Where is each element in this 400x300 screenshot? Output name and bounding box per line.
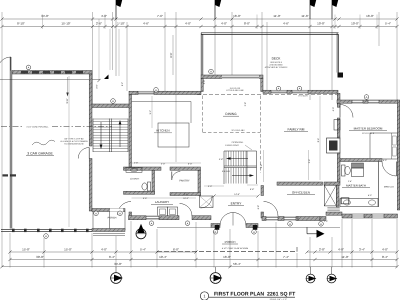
markers entry bbox=[213, 230, 218, 235]
black section arrow near garage NE bbox=[104, 75, 109, 80]
svg-text:8'-6": 8'-6" bbox=[317, 138, 320, 143]
svg-text:16'-8": 16'-8" bbox=[233, 14, 241, 18]
svg-text:11'-0": 11'-0" bbox=[341, 255, 348, 259]
master suite divider wall bbox=[340, 159, 382, 162]
deck west dim bbox=[172, 35, 174, 75]
office front wall bbox=[262, 217, 298, 221]
xbox top wall bbox=[324, 182, 340, 185]
svg-text:9'-6": 9'-6" bbox=[66, 98, 69, 103]
svg-text:3'-6": 3'-6" bbox=[96, 84, 99, 89]
entry dim bbox=[214, 195, 258, 197]
svg-text:CASED OPN'G: CASED OPN'G bbox=[225, 144, 239, 147]
front wall master section bbox=[326, 212, 342, 215]
master bedroom north wall bbox=[337, 100, 398, 103]
family east wall upper bbox=[337, 93, 340, 104]
kitchen north wall bbox=[129, 91, 201, 94]
extension lines from top dims bbox=[1, 12, 3, 267]
markers laundry front bbox=[149, 221, 154, 226]
svg-text:3'-0": 3'-0" bbox=[203, 80, 206, 85]
cabinet right of xbox bbox=[341, 198, 349, 204]
deck door arc into master bbox=[340, 105, 353, 118]
entry front wall right bbox=[246, 224, 258, 228]
svg-text:10'-0": 10'-0" bbox=[351, 22, 359, 26]
west wall vent marks bbox=[3, 174, 9, 176]
svg-text:DECK: DECK bbox=[272, 57, 282, 61]
garage NW service door arc bbox=[0, 57, 11, 71]
svg-text:TO GARAGE/HOUSE: TO GARAGE/HOUSE bbox=[64, 143, 84, 146]
svg-text:8'-0": 8'-0" bbox=[244, 22, 250, 26]
closet door arc bbox=[201, 197, 213, 209]
svg-text:5'-4": 5'-4" bbox=[140, 247, 146, 251]
porch steps arrow bbox=[306, 227, 308, 234]
entry front wall left bbox=[211, 224, 220, 228]
svg-text:PORCH: PORCH bbox=[108, 216, 117, 219]
dining bay north wall bbox=[201, 75, 263, 79]
xbox with X bbox=[324, 185, 336, 206]
svg-text:4'-8": 4'-8" bbox=[219, 158, 224, 161]
side porch south edge bbox=[92, 229, 125, 232]
flag marker 1 bbox=[115, 0, 117, 19]
svg-text:1/2 BATH: 1/2 BATH bbox=[130, 178, 140, 181]
vanity bbox=[340, 199, 378, 207]
stair arrows bbox=[228, 158, 248, 160]
svg-text:A: A bbox=[320, 223, 322, 226]
extension line x267 bbox=[266, 22, 268, 90]
laundry west wall lower bbox=[129, 212, 132, 217]
svg-text:4 1/2" CONC SLAB W/ WWM: 4 1/2" CONC SLAB W/ WWM bbox=[222, 247, 249, 250]
entry doors bbox=[220, 213, 233, 226]
flag marker 4 bbox=[331, 0, 333, 19]
interior dim lines bbox=[132, 162, 202, 164]
office french doors bbox=[264, 202, 279, 217]
svg-text:4'-0": 4'-0" bbox=[185, 22, 191, 26]
bottom dim row A right bbox=[307, 251, 397, 253]
svg-text:15'-8": 15'-8" bbox=[22, 247, 30, 251]
roof overhang line behind garage bbox=[0, 79, 100, 81]
svg-text:MASTER BATH: MASTER BATH bbox=[346, 184, 366, 188]
svg-text:2'-8": 2'-8" bbox=[244, 102, 247, 107]
half bath east wall bbox=[152, 170, 155, 194]
front window laundry bbox=[146, 216, 159, 220]
marker bay bbox=[209, 69, 214, 74]
gyp board note bbox=[32, 140, 55, 145]
marker master N bbox=[364, 95, 369, 100]
svg-text:13'-0 X 16'-0: 13'-0 X 16'-0 bbox=[362, 132, 375, 135]
bottom dim extension lines bbox=[9, 233, 11, 268]
dining dashed boundary west bbox=[202, 96, 204, 133]
svg-text:15'-0": 15'-0" bbox=[64, 247, 72, 251]
svg-text:6'-0": 6'-0" bbox=[383, 159, 387, 162]
bed bbox=[370, 133, 397, 159]
svg-text:10'-4": 10'-4" bbox=[159, 255, 167, 259]
svg-text:56'-4": 56'-4" bbox=[233, 262, 241, 266]
svg-text:A: A bbox=[28, 67, 30, 70]
porch slab edge line bbox=[157, 227, 211, 229]
svg-text:A: A bbox=[187, 222, 189, 225]
garage north wall bbox=[12, 71, 92, 75]
family interior dim bbox=[319, 96, 321, 180]
svg-text:34'-8": 34'-8" bbox=[114, 262, 122, 266]
svg-text:10'-8": 10'-8" bbox=[317, 22, 325, 26]
family east wall lower bbox=[337, 153, 340, 182]
svg-text:7'-4": 7'-4" bbox=[283, 255, 289, 259]
svg-text:A: A bbox=[155, 89, 157, 92]
deck corner post bbox=[338, 73, 344, 78]
entry-office wall bbox=[261, 186, 264, 196]
svg-text:A: A bbox=[366, 96, 368, 99]
svg-text:A: A bbox=[210, 71, 212, 74]
svg-text:A: A bbox=[289, 223, 291, 226]
svg-text:3'-0": 3'-0" bbox=[208, 185, 213, 188]
svg-text:5'-2": 5'-2" bbox=[121, 82, 124, 87]
svg-text:8'-0 SLDR: 8'-0 SLDR bbox=[298, 95, 308, 98]
pantry east wall bbox=[198, 170, 201, 195]
kitchen counter bbox=[132, 101, 192, 103]
svg-text:ATTACHED BY OTHERS: ATTACHED BY OTHERS bbox=[265, 66, 288, 69]
top dimension line row2 bbox=[2, 26, 397, 28]
svg-text:6'-4": 6'-4" bbox=[109, 255, 115, 259]
svg-text:2'-4": 2'-4" bbox=[348, 180, 352, 183]
svg-text:3'-4": 3'-4" bbox=[359, 247, 365, 251]
svg-text:32'-0 FLR ABV: 32'-0 FLR ABV bbox=[231, 129, 245, 132]
side porch door opening bbox=[110, 209, 123, 212]
family east wall mid bbox=[337, 118, 340, 138]
svg-text:A: A bbox=[95, 212, 97, 215]
svg-text:LAUNDRY: LAUNDRY bbox=[155, 200, 169, 204]
master west wall segment bbox=[337, 103, 340, 107]
kitchen island bbox=[158, 123, 189, 147]
marker kitchen N bbox=[154, 88, 159, 93]
svg-text:4'-0": 4'-0" bbox=[101, 14, 107, 18]
title circle bbox=[200, 292, 208, 300]
svg-text:A: A bbox=[278, 88, 280, 91]
svg-text:OPEN RAIL: OPEN RAIL bbox=[232, 141, 244, 144]
svg-text:4'-0": 4'-0" bbox=[332, 107, 335, 112]
svg-text:PANTRY: PANTRY bbox=[179, 180, 190, 183]
flag marker 2 bbox=[214, 0, 216, 19]
garage east wall upper bbox=[89, 74, 92, 146]
toilet bbox=[342, 165, 346, 176]
svg-text:5'-2": 5'-2" bbox=[149, 110, 152, 115]
bay east wall bbox=[261, 79, 263, 92]
svg-text:8'-10": 8'-10" bbox=[17, 22, 25, 26]
deck railing north bbox=[201, 32, 339, 34]
vanity half bath bbox=[126, 168, 142, 173]
svg-text:A: A bbox=[253, 231, 255, 234]
kitchen extension lines bbox=[151, 96, 153, 128]
linen niche bbox=[342, 198, 349, 204]
svg-text:A: A bbox=[45, 235, 47, 238]
dining dashed boundary east bbox=[260, 96, 262, 174]
shelves below xbox bbox=[327, 206, 339, 208]
svg-text:4'-0": 4'-0" bbox=[101, 247, 107, 251]
half bath toilet bbox=[148, 182, 151, 191]
svg-text:MASTER BEDROOM: MASTER BEDROOM bbox=[354, 127, 383, 131]
svg-text:5'-6": 5'-6" bbox=[143, 197, 148, 200]
garage east wall lower bbox=[89, 159, 92, 212]
svg-text:A: A bbox=[119, 212, 121, 215]
bay west wall bbox=[201, 79, 203, 92]
bottom dim row A left bbox=[10, 251, 196, 253]
side porch posts bbox=[92, 212, 94, 231]
garage south wall with doors bbox=[1, 228, 92, 230]
svg-text:4'-0": 4'-0" bbox=[368, 194, 372, 197]
svg-text:ENTRY: ENTRY bbox=[231, 202, 243, 206]
svg-text:A: A bbox=[299, 88, 301, 91]
dining dashed boundary south bbox=[203, 132, 261, 134]
porch edge dashed bbox=[157, 251, 297, 253]
family south wall bbox=[277, 182, 323, 185]
svg-text:4'-6": 4'-6" bbox=[143, 22, 149, 26]
bottom dim row B bbox=[10, 259, 397, 261]
svg-text:MRS CLO: MRS CLO bbox=[384, 186, 394, 189]
under stair closet bbox=[200, 196, 214, 208]
svg-text:10'-0": 10'-0" bbox=[183, 197, 189, 200]
markers office front bbox=[288, 222, 293, 227]
front wall seg2 bbox=[192, 216, 211, 220]
pantry door arc bbox=[172, 172, 181, 181]
deck railing east bbox=[336, 33, 338, 73]
svg-text:4'-0": 4'-0" bbox=[221, 22, 227, 26]
window marker garage N bbox=[26, 65, 31, 70]
main staircase bbox=[224, 150, 257, 152]
svg-text:5'-8": 5'-8" bbox=[250, 188, 255, 191]
svg-text:2'-0": 2'-0" bbox=[324, 220, 328, 223]
svg-text:1'-10": 1'-10" bbox=[117, 22, 125, 26]
side porch steps bbox=[93, 232, 125, 234]
office front windows bbox=[266, 217, 278, 221]
laundry door arc bbox=[180, 204, 193, 217]
closet bump bbox=[334, 120, 340, 131]
svg-text:4'-8": 4'-8" bbox=[338, 247, 344, 251]
stair hall north wall bbox=[92, 104, 131, 108]
markers side porch bbox=[94, 211, 99, 216]
garage centerline bbox=[1, 126, 23, 128]
laundry door arc from hall bbox=[118, 202, 132, 216]
svg-text:5'-4": 5'-4" bbox=[385, 22, 391, 26]
front wall east section bbox=[298, 217, 320, 221]
svg-text:A: A bbox=[215, 231, 217, 234]
hall double staircase bbox=[92, 119, 94, 153]
svg-text:FIRST FLOOR PLAN 2261 SQ FT: FIRST FLOOR PLAN 2261 SQ FT bbox=[214, 292, 296, 298]
top dimension line row1 bbox=[2, 18, 397, 20]
markers family N bbox=[276, 86, 281, 91]
master N windows bbox=[352, 100, 363, 103]
bay slider opening bbox=[222, 75, 259, 79]
svg-text:3 CAR GARAGE: 3 CAR GARAGE bbox=[27, 152, 53, 156]
pantry south wall bbox=[170, 193, 201, 196]
garage interior dim bbox=[68, 76, 70, 227]
fireplace bbox=[327, 138, 341, 153]
stair up arrow bbox=[119, 122, 121, 147]
half bath north wall bbox=[124, 167, 162, 170]
master front windows bbox=[352, 214, 364, 218]
deck railing west bbox=[200, 33, 202, 75]
bath-closet divider bbox=[378, 162, 380, 208]
master east wall bbox=[397, 100, 399, 210]
svg-text:15'-10": 15'-10" bbox=[61, 22, 70, 26]
extension line x232 bbox=[231, 12, 233, 75]
svg-text:3 1/2" CONC FDN WALL: 3 1/2" CONC FDN WALL bbox=[26, 126, 49, 129]
garage west wall bbox=[9, 57, 11, 229]
attic floor above dashed line bbox=[197, 94, 338, 96]
svg-text:14'-8": 14'-8" bbox=[234, 193, 240, 196]
svg-text:11'-0": 11'-0" bbox=[273, 14, 280, 18]
marker garage S bbox=[44, 234, 49, 239]
svg-text:A: A bbox=[112, 100, 114, 103]
kitchen window bbox=[138, 91, 154, 94]
xbox right wall bbox=[336, 185, 339, 207]
svg-text:6'-8 RISE: 6'-8 RISE bbox=[222, 170, 231, 173]
side porch section symbol bbox=[136, 229, 146, 239]
svg-text:6'-0": 6'-0" bbox=[173, 247, 179, 251]
svg-text:ATT FLR ABV LINE: ATT FLR ABV LINE bbox=[226, 89, 244, 92]
side porch north wall bbox=[92, 209, 125, 212]
front wall laundry section bbox=[129, 216, 180, 220]
bottom dim row C overall bbox=[2, 266, 397, 268]
master bath door arc bbox=[382, 162, 397, 177]
kitchen west wall bbox=[129, 95, 132, 168]
svg-text:2'-8": 2'-8" bbox=[184, 193, 188, 196]
svg-text:8'-4": 8'-4" bbox=[382, 255, 388, 259]
svg-text:FAMILY RM: FAMILY RM bbox=[288, 128, 305, 132]
tick stubs top bbox=[42, 15, 44, 30]
entry post right bbox=[253, 225, 257, 230]
svg-text:8'-6": 8'-6" bbox=[170, 52, 173, 57]
bubbles bbox=[115, 267, 117, 273]
family N windows bbox=[271, 90, 287, 93]
svg-text:DINING: DINING bbox=[225, 112, 237, 116]
svg-text:4'-6": 4'-6" bbox=[283, 22, 289, 26]
svg-text:16'-8": 16'-8" bbox=[223, 255, 231, 259]
stair down arrow bbox=[100, 122, 102, 147]
svg-text:6'-8": 6'-8" bbox=[257, 205, 260, 210]
svg-text:KITCHEN: KITCHEN bbox=[156, 129, 169, 133]
svg-text:11'-6": 11'-6" bbox=[301, 14, 308, 18]
svg-text:34'-8": 34'-8" bbox=[41, 14, 49, 18]
family room north wall bbox=[263, 90, 338, 93]
marker stair hall N bbox=[111, 99, 116, 104]
svg-text:A: A bbox=[151, 222, 153, 225]
garage-hall door arc bbox=[78, 148, 89, 159]
leader arrow bbox=[67, 77, 69, 95]
entry post left bbox=[215, 225, 220, 230]
garage north windows bbox=[21, 71, 28, 74]
svg-text:16'-8": 16'-8" bbox=[366, 14, 374, 18]
svg-text:4'-0": 4'-0" bbox=[382, 247, 388, 251]
pantry north wall bbox=[170, 167, 201, 170]
svg-text:30'-8": 30'-8" bbox=[36, 255, 44, 259]
shower bbox=[352, 163, 364, 168]
svg-text:9'-8": 9'-8" bbox=[260, 164, 263, 169]
svg-text:2'-8": 2'-8" bbox=[319, 247, 325, 251]
washer dryer bbox=[158, 207, 168, 216]
svg-text:OFFICE/DEN: OFFICE/DEN bbox=[292, 191, 310, 195]
half bath south wall bbox=[124, 191, 155, 194]
svg-text:7'-6": 7'-6" bbox=[157, 14, 163, 18]
flag marker 3 bbox=[309, 0, 311, 19]
